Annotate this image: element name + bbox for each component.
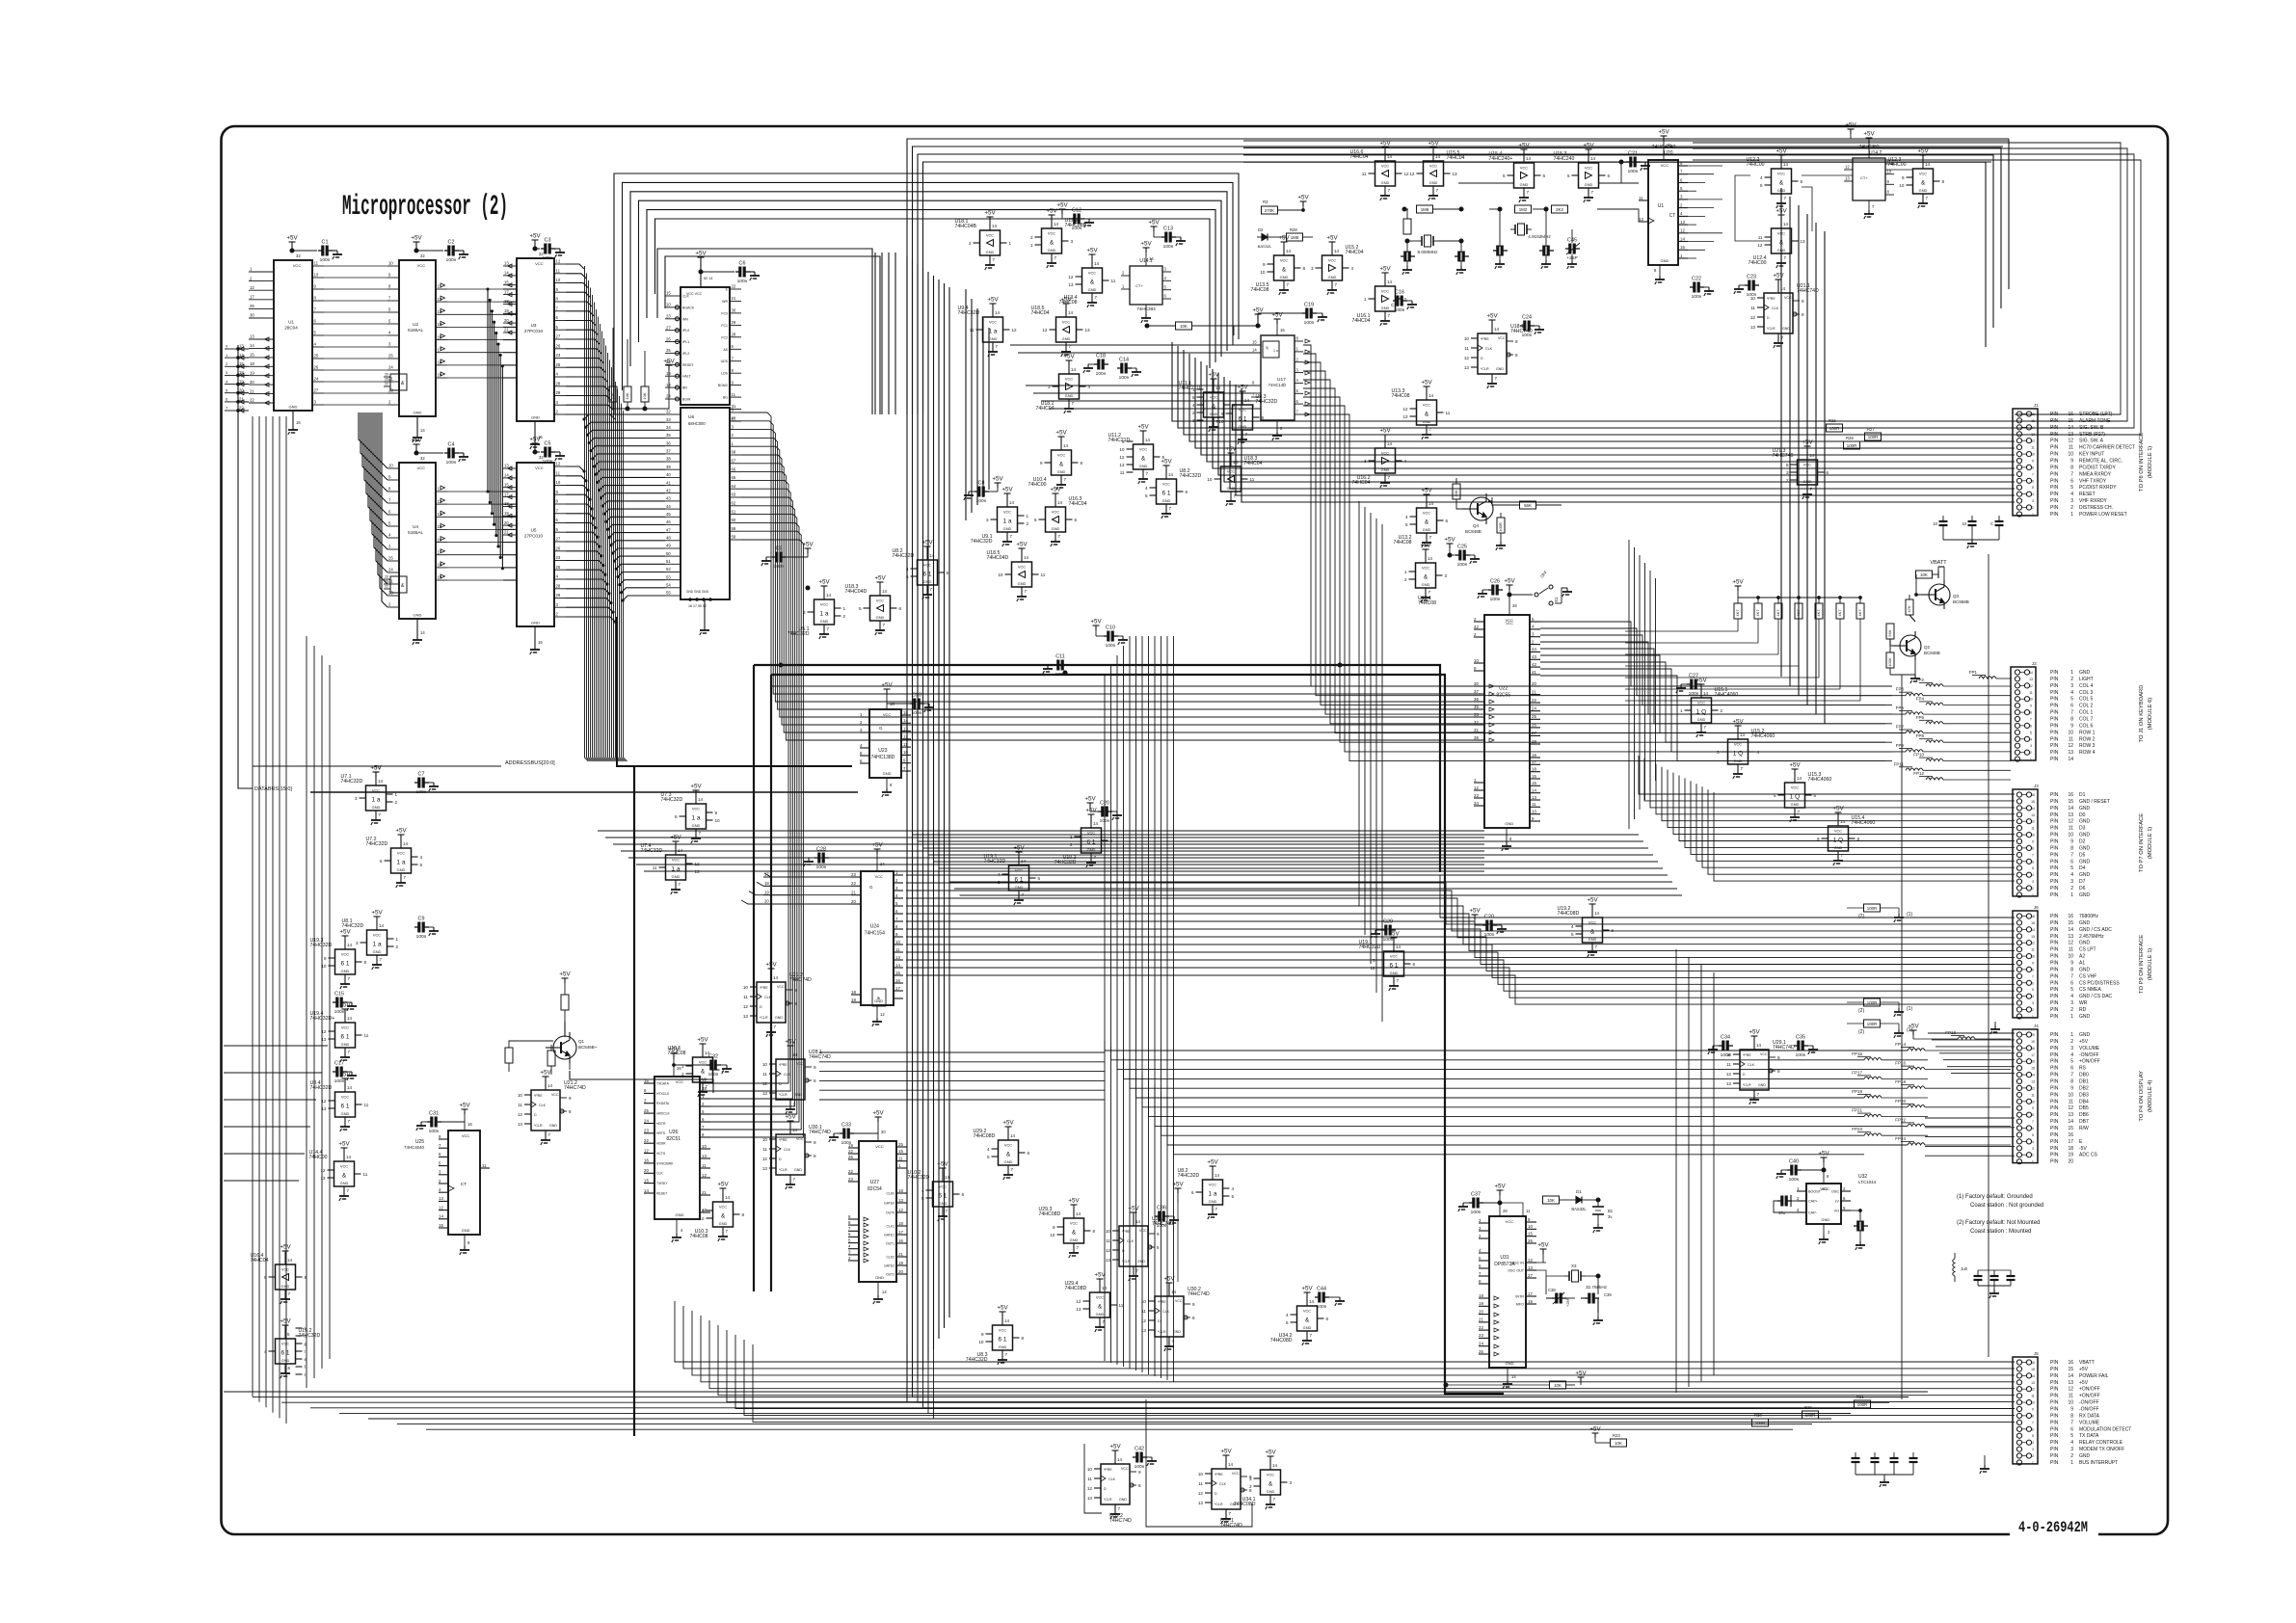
svg-text:100n: 100n [1457, 562, 1468, 568]
gate U7.4 74HC32D [641, 835, 701, 895]
svg-text:44: 44 [666, 504, 671, 509]
svg-text:+5V: +5V [1252, 307, 1264, 314]
ground U3 [530, 421, 544, 449]
svg-text:18: 18 [1532, 767, 1536, 772]
svg-text:CLK2: CLK2 [887, 1255, 895, 1259]
svg-text:13: 13 [518, 1122, 523, 1127]
svg-text:6: 6 [1038, 876, 1041, 881]
svg-text:9: 9 [2070, 839, 2073, 845]
svg-text:PIN: PIN [2050, 485, 2059, 491]
svg-text:11: 11 [1111, 279, 1116, 283]
svg-text:9: 9 [1249, 1475, 1252, 1479]
svg-text:31: 31 [1474, 728, 1479, 732]
svg-text:100n: 100n [737, 279, 748, 284]
svg-text:D: D [1767, 316, 1770, 320]
svg-text:36: 36 [1474, 697, 1479, 702]
svg-text:12: 12 [1474, 785, 1479, 790]
IC U27 82C54 [848, 1141, 907, 1304]
svg-text:+5V: +5V [1773, 273, 1784, 279]
svg-text:VCC: VCC [989, 320, 997, 325]
svg-text:+5V: +5V [1486, 313, 1498, 320]
svg-text:76800Hz: 76800Hz [2079, 914, 2099, 919]
svg-text:14: 14 [2031, 1074, 2035, 1078]
svg-text:PIN: PIN [2050, 1447, 2059, 1452]
svg-text:VCC: VCC [1280, 258, 1288, 263]
svg-text:100n: 100n [1135, 1464, 1145, 1470]
capacitor X1a [1401, 241, 1415, 275]
coil FP13 [1908, 1024, 2011, 1040]
svg-text:15: 15 [2068, 799, 2073, 805]
J1 pin text [2050, 412, 2135, 518]
svg-text:(1) Factory default: Grounded: (1) Factory default: Grounded [1957, 1194, 2033, 1200]
svg-text:PIN: PIN [2050, 1052, 2059, 1058]
svg-text:51: 51 [666, 559, 671, 564]
svg-text:&: & [1425, 519, 1429, 526]
gate U11.2 74HC21D [1108, 424, 1165, 485]
svg-text:+5V: +5V [1326, 235, 1338, 242]
capacitor C12 [1056, 202, 1094, 232]
svg-text:9: 9 [324, 956, 327, 961]
svg-text:17: 17 [504, 492, 509, 496]
svg-text:14: 14 [379, 923, 385, 928]
svg-text:TX DATA: TX DATA [2079, 1433, 2099, 1439]
svg-text:8: 8 [2070, 967, 2073, 972]
svg-text:VOLUME: VOLUME [2079, 1420, 2100, 1425]
IC U5 27PC010 [517, 463, 554, 626]
svg-text:9: 9 [702, 1209, 705, 1213]
svg-text:27: 27 [556, 334, 561, 339]
svg-text:14: 14 [792, 1052, 798, 1057]
svg-text:VCC: VCC [1004, 1143, 1012, 1148]
gate U16.3 74HC04 [1034, 487, 1087, 547]
svg-text:*PRE: *PRE [1104, 1468, 1112, 1472]
svg-text:14: 14 [1532, 788, 1536, 793]
svg-text:VCC: VCC [796, 1062, 804, 1066]
vcc X3 [1537, 1242, 1549, 1264]
svg-text:+5V: +5V [1732, 719, 1744, 726]
svg-text:15: 15 [439, 1223, 443, 1228]
svg-text:4K7: 4K7 [1837, 609, 1842, 617]
svg-text:14: 14 [2029, 671, 2033, 675]
svg-text:6: 6 [1186, 490, 1188, 494]
gate U7.3 74HC32D [661, 784, 721, 844]
svg-text:VCC: VCC [293, 263, 302, 268]
svg-text:PIN: PIN [2050, 1059, 2059, 1065]
svg-text:GND: GND [289, 405, 298, 410]
svg-text:PIN: PIN [2050, 941, 2059, 946]
svg-text:VCC: VCC [417, 263, 426, 268]
wire fan U4 left [359, 412, 387, 607]
svg-text:CLK: CLK [1772, 306, 1779, 310]
svg-text:9: 9 [814, 1140, 816, 1145]
svg-text:14: 14 [725, 1195, 731, 1200]
svg-text:9: 9 [715, 811, 718, 815]
svg-text:PIN: PIN [2050, 1066, 2059, 1072]
svg-text:&: & [877, 996, 880, 1000]
svg-text:14: 14 [1117, 1457, 1123, 1462]
svg-text:5: 5 [1571, 932, 1574, 937]
U2 OE gate [384, 373, 407, 390]
svg-text:PIN: PIN [2050, 710, 2059, 716]
svg-text:59: 59 [732, 526, 736, 531]
svg-text:14: 14 [250, 343, 254, 348]
svg-text:AS: AS [723, 348, 728, 352]
svg-text:8: 8 [1192, 1316, 1195, 1320]
svg-text:1M8: 1M8 [1291, 235, 1299, 240]
svg-text:VCC: VCC [1096, 1295, 1104, 1300]
svg-text:74HC08D: 74HC08D [1065, 1286, 1087, 1291]
svg-text:13: 13 [1198, 1501, 1204, 1505]
svg-text:14: 14 [1244, 398, 1250, 403]
svg-text:12: 12 [1726, 1072, 1732, 1077]
svg-text:HALT: HALT [682, 375, 692, 379]
svg-text:GND: GND [372, 805, 381, 810]
svg-text:&: & [1006, 1152, 1011, 1158]
svg-text:20: 20 [385, 575, 388, 579]
svg-text:100n: 100n [446, 257, 457, 263]
svg-text:4: 4 [2070, 1052, 2073, 1058]
svg-text:11: 11 [2031, 446, 2035, 450]
svg-text:PIN: PIN [2050, 1433, 2059, 1439]
svg-text:D: D [1158, 1319, 1161, 1323]
svg-text:+5V: +5V [1140, 241, 1152, 248]
ground U4 [413, 619, 426, 645]
svg-text:13: 13 [1464, 365, 1470, 370]
svg-text:PIN: PIN [2050, 954, 2059, 960]
svg-text:C35: C35 [1796, 1035, 1805, 1041]
svg-text:DB7: DB7 [2079, 1119, 2089, 1125]
svg-text:1: 1 [1070, 835, 1073, 839]
svg-text:*CLR: *CLR [779, 1168, 788, 1172]
svg-text:100K: 100K [1887, 657, 1892, 667]
svg-text:GND: GND [2079, 833, 2091, 838]
gate U19.1 74HC32D [984, 845, 1041, 906]
svg-text:17: 17 [898, 1230, 903, 1235]
svg-text:8: 8 [2032, 968, 2034, 971]
svg-text:10: 10 [1464, 336, 1470, 341]
svg-text:PIN: PIN [2050, 852, 2059, 858]
svg-text:5: 5 [921, 1196, 924, 1201]
svg-text:PIN: PIN [2050, 987, 2059, 993]
svg-text:D: D [779, 1157, 782, 1161]
svg-text:R23: R23 [1613, 1433, 1620, 1438]
J6 pin text [2050, 914, 2120, 1020]
svg-text:PIN: PIN [2050, 859, 2059, 865]
svg-text:GND: GND [414, 411, 422, 415]
gate U16.4 74HC04 [251, 1244, 307, 1305]
svg-text:17: 17 [2031, 1053, 2035, 1057]
svg-text:DB6: DB6 [2079, 1112, 2089, 1118]
svg-text:FP3: FP3 [1896, 687, 1905, 692]
svg-text:2: 2 [2070, 886, 2073, 891]
svg-text:14: 14 [1494, 327, 1500, 332]
svg-text:DISTRESS CH.: DISTRESS CH. [2079, 505, 2113, 511]
svg-text:*PRE: *PRE [1481, 337, 1489, 341]
svg-text:+5V: +5V [881, 682, 893, 689]
svg-text:5: 5 [1034, 518, 1037, 522]
svg-text:U3: U3 [531, 323, 537, 328]
svg-text:PIN: PIN [2050, 1380, 2059, 1386]
capacitor C35 [1794, 1035, 1818, 1059]
svg-text:100n: 100n [334, 1078, 345, 1084]
svg-text:PIN: PIN [2050, 690, 2059, 696]
svg-text:12: 12 [1409, 172, 1415, 176]
svg-text:VCC: VCC [1065, 377, 1073, 382]
svg-text:4: 4 [987, 1147, 990, 1152]
gate U34.1 74HC08D [1234, 1450, 1293, 1510]
svg-text:17: 17 [504, 289, 509, 294]
svg-text:6 1: 6 1 [998, 1337, 1006, 1344]
svg-text:14: 14 [1286, 249, 1292, 253]
svg-text:PIN: PIN [2050, 961, 2059, 967]
svg-text:9: 9 [2070, 459, 2073, 465]
svg-text:14: 14 [1387, 441, 1393, 446]
svg-text:GND: GND [719, 1221, 728, 1226]
capacitor X2b [1539, 229, 1554, 269]
svg-text:3: 3 [2070, 498, 2073, 504]
svg-text:42: 42 [1474, 625, 1479, 629]
svg-text:74HC04: 74HC04 [1031, 310, 1050, 316]
svg-text:12: 12 [556, 259, 561, 264]
wire addressbus line [617, 617, 852, 766]
resistor R41 [1847, 1020, 1912, 1038]
gate U18.3 74HC04 [1207, 446, 1262, 507]
flipflop U33.1 [1198, 1449, 1252, 1530]
svg-text:22: 22 [1532, 698, 1536, 703]
svg-text:GND: GND [2079, 1453, 2091, 1459]
svg-text:9: 9 [2032, 840, 2034, 844]
svg-text:6: 6 [2070, 1066, 2073, 1072]
svg-text:12: 12 [644, 1148, 649, 1153]
svg-text:(1): (1) [1907, 912, 1912, 918]
svg-text:VCC: VCC [939, 1184, 947, 1189]
svg-text:*CLR: *CLR [1743, 1083, 1751, 1087]
svg-text:74HC32D: 74HC32D [310, 1085, 333, 1091]
gate U12.4 74HC00 [1748, 208, 1805, 269]
flipflop U28.1 [762, 1039, 831, 1115]
svg-text:4: 4 [2032, 1140, 2034, 1144]
svg-text:D: D [1743, 1073, 1746, 1077]
svg-text:BAS32L: BAS32L [1571, 1207, 1587, 1211]
svg-text:2: 2 [1027, 521, 1029, 526]
gate U21.3 74HC740 [1773, 439, 1829, 500]
svg-text:2: 2 [969, 241, 972, 246]
svg-text:+5V: +5V [1068, 1198, 1080, 1205]
svg-text:2: 2 [2070, 1453, 2073, 1459]
svg-text:PIN: PIN [2050, 1440, 2059, 1446]
wire bus to J3 [1639, 756, 2015, 881]
svg-text:VCC: VCC [397, 851, 405, 856]
svg-text:4K7: 4K7 [1735, 609, 1740, 617]
gate U12.1 74HC08B [1030, 208, 1087, 269]
svg-text:5: 5 [2070, 1059, 2073, 1065]
svg-text:10: 10 [518, 1093, 523, 1098]
svg-text:GND GND GND: GND GND GND [686, 590, 709, 594]
svg-text:100n: 100n [1304, 320, 1315, 326]
capacitor C29 [1371, 919, 1396, 944]
svg-text:15: 15 [903, 710, 908, 715]
svg-text:100n: 100n [1395, 307, 1405, 313]
svg-text:GATE0: GATE0 [884, 1201, 894, 1205]
svg-text:74HC32D: 74HC32D [1256, 399, 1278, 405]
svg-text:FP20: FP20 [1895, 1099, 1906, 1104]
svg-text:14: 14 [2068, 757, 2073, 762]
svg-text:CLK: CLK [784, 1148, 791, 1152]
svg-text:11: 11 [732, 392, 736, 397]
svg-text:6: 6 [2032, 1127, 2034, 1131]
capacitor C7 [370, 765, 439, 796]
svg-text:15: 15 [250, 353, 254, 358]
svg-text:4: 4 [2070, 872, 2073, 878]
svg-text:41: 41 [666, 480, 671, 485]
svg-text:11: 11 [2069, 826, 2073, 832]
svg-text:C8: C8 [776, 546, 783, 552]
svg-text:5: 5 [1567, 173, 1570, 178]
svg-text:4: 4 [1286, 1313, 1289, 1317]
svg-text:20: 20 [250, 380, 254, 385]
svg-text:12: 12 [762, 1157, 768, 1161]
svg-text:6: 6 [2070, 478, 2073, 484]
svg-text:GND: GND [1381, 306, 1390, 310]
svg-text:VCC: VCC [672, 858, 680, 863]
svg-text:14: 14 [992, 224, 998, 228]
svg-text:PIN: PIN [2050, 934, 2059, 940]
svg-text:FP4: FP4 [1916, 696, 1925, 701]
svg-text:VCC: VCC [1162, 482, 1170, 487]
svg-text:GND: GND [1496, 367, 1504, 371]
svg-text:*CLR: *CLR [779, 1093, 788, 1097]
svg-text:ADC CS: ADC CS [2079, 1153, 2098, 1158]
svg-text:13: 13 [1845, 176, 1850, 181]
wire fan U5 right [566, 466, 616, 623]
svg-text:3: 3 [1071, 239, 1074, 244]
svg-text:GND: GND [2079, 967, 2091, 972]
svg-text:CS NMEA: CS NMEA [2079, 987, 2101, 993]
svg-text:100n: 100n [1096, 371, 1107, 377]
wire U33 loop [1084, 1399, 1252, 1527]
svg-text:74HC74D: 74HC74D [1220, 1523, 1242, 1529]
svg-text:FP12: FP12 [1913, 771, 1924, 776]
svg-text:6: 6 [1413, 962, 1416, 967]
svg-text:14: 14 [826, 593, 832, 598]
svg-text:-ON/OFF: -ON/OFF [2079, 1052, 2099, 1058]
transistor Q4 BC848B [1456, 493, 1493, 534]
svg-text:VCC: VCC [1834, 829, 1842, 834]
svg-text:12: 12 [1012, 328, 1018, 333]
svg-text:23: 23 [644, 1129, 649, 1133]
U3 left pins [503, 261, 517, 334]
svg-text:GND: GND [2079, 892, 2091, 898]
svg-text:25: 25 [388, 354, 393, 359]
svg-text:FP1: FP1 [1969, 670, 1978, 675]
svg-text:J5: J5 [2034, 1351, 2039, 1356]
svg-text:C18: C18 [1096, 354, 1106, 359]
svg-text:100n: 100n [816, 865, 827, 870]
wire left margin stubs [224, 1046, 328, 1181]
svg-text:PIN: PIN [2050, 892, 2059, 898]
svg-text:B1: B1 [1608, 1209, 1614, 1213]
svg-text:C5: C5 [545, 441, 551, 447]
svg-text:19: 19 [250, 370, 254, 375]
svg-text:5: 5 [1503, 173, 1506, 178]
svg-text:+5V: +5V [717, 1182, 729, 1188]
svg-text:12: 12 [1464, 356, 1470, 360]
capacitor C24 [1520, 315, 1544, 339]
svg-text:WR: WR [2079, 1000, 2088, 1006]
diode D1 BAS32L [1571, 1189, 1600, 1211]
svg-text:11: 11 [1119, 1303, 1124, 1308]
svg-text:74HC00: 74HC00 [1888, 162, 1907, 168]
capacitor C28 [804, 847, 877, 871]
svg-text:27: 27 [314, 388, 319, 393]
svg-text:VCC: VCC [551, 1093, 559, 1097]
gate U8.1 74HC32D [342, 910, 399, 971]
svg-text:PIN: PIN [2050, 439, 2059, 444]
svg-text:14: 14 [1309, 1299, 1315, 1304]
resistor R26 56K [1488, 497, 1562, 509]
svg-text:4: 4 [1351, 266, 1354, 271]
svg-text:VCC: VCC [1381, 289, 1389, 294]
svg-text:13: 13 [1087, 1496, 1093, 1501]
svg-text:42: 42 [666, 488, 671, 492]
svg-text:PIN: PIN [2050, 1400, 2059, 1406]
svg-text:(MODULE 1): (MODULE 1) [2148, 446, 2153, 479]
svg-text:14: 14 [1228, 1462, 1234, 1467]
svg-text:5: 5 [987, 1155, 990, 1159]
wire bus vertical right [1629, 540, 1656, 829]
svg-text:74HC32D: 74HC32D [641, 848, 663, 854]
svg-text:+5V: +5V [818, 579, 830, 586]
resistor R28 [1844, 436, 1860, 449]
J3 pin text [2050, 792, 2110, 898]
svg-text:11: 11 [2069, 947, 2073, 953]
wire bus to J2 [1540, 622, 1906, 761]
coil FP22 [1895, 1117, 2011, 1126]
svg-text:10u: 10u [1778, 1211, 1786, 1215]
svg-text:10: 10 [895, 940, 900, 945]
svg-text:12: 12 [880, 1012, 885, 1017]
svg-text:100R: 100R [1847, 443, 1857, 448]
gate U15.3 74HC4060 [1774, 762, 1831, 823]
svg-text:1: 1 [2030, 758, 2032, 761]
svg-text:RESET: RESET [2079, 492, 2096, 497]
svg-text:100n: 100n [320, 257, 331, 263]
resistor R21 [1403, 209, 1411, 234]
svg-text:D4: D4 [2079, 865, 2086, 871]
svg-text:ROW 2: ROW 2 [2079, 736, 2096, 742]
svg-text:4-0-26942M: 4-0-26942M [2018, 1519, 2088, 1536]
svg-text:2: 2 [2070, 1039, 2073, 1045]
svg-text:C36: C36 [1157, 1206, 1166, 1211]
wire bus verticals above J5 [1676, 949, 1714, 1393]
svg-text:LV: LV [1835, 1200, 1840, 1204]
svg-text:BC848B: BC848B [1924, 651, 1940, 655]
svg-text:74HC138D: 74HC138D [871, 755, 895, 760]
svg-text:&: & [1268, 1481, 1273, 1488]
svg-text:C33: C33 [841, 1123, 851, 1129]
svg-text:15: 15 [2031, 1067, 2035, 1071]
svg-text:2.4576MHz: 2.4576MHz [2079, 934, 2104, 940]
capacitor C11 [1043, 654, 1068, 678]
svg-text:C7: C7 [418, 772, 425, 778]
svg-text:PIN: PIN [2050, 757, 2059, 762]
svg-text:14: 14 [1024, 555, 1029, 560]
gate U13.5 74HC08 [1250, 235, 1305, 296]
svg-text:PIN: PIN [2050, 806, 2059, 811]
svg-text:13: 13 [320, 1176, 326, 1181]
svg-text:32: 32 [666, 410, 671, 414]
svg-text:8: 8 [2070, 717, 2073, 723]
